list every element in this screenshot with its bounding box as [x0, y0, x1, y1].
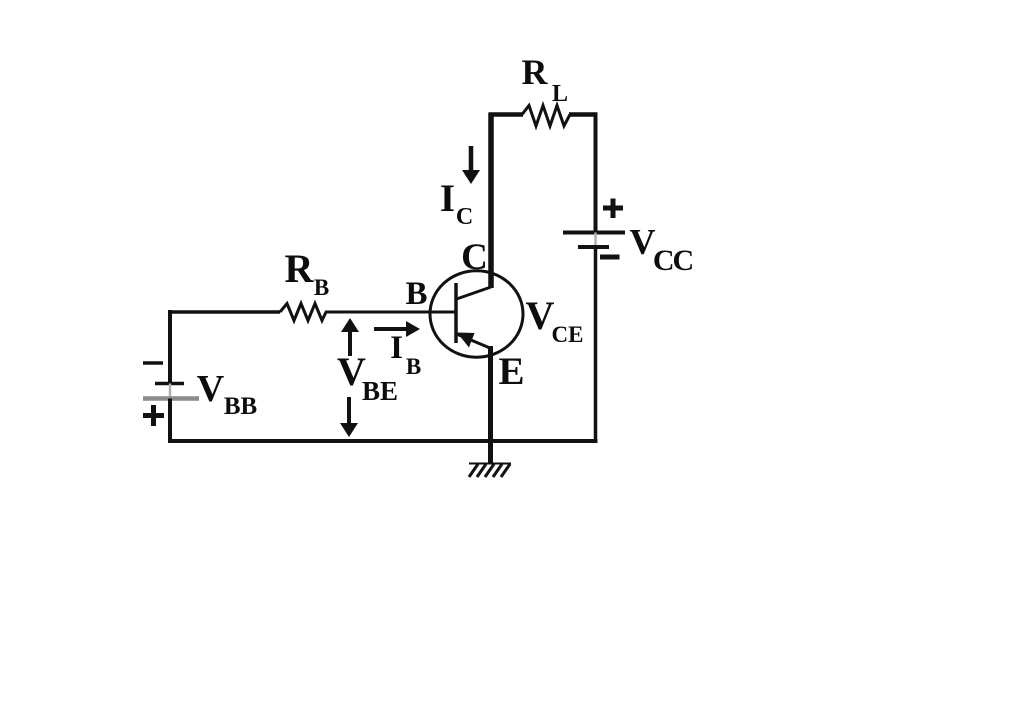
battery VBB inter-plate stub	[169, 384, 172, 399]
arrow IB	[374, 321, 420, 337]
label VBB	[197, 368, 257, 420]
svg-text:B: B	[314, 275, 329, 300]
label RB	[285, 246, 330, 300]
transistor collector diagonal	[457, 287, 492, 299]
battery VBB plus sign	[143, 405, 164, 426]
label IC	[440, 177, 473, 230]
svg-text:C: C	[461, 237, 488, 278]
svg-text:R: R	[285, 246, 315, 291]
label VCC	[630, 222, 693, 278]
wire base left segment	[168, 310, 280, 314]
label VCE	[526, 293, 584, 347]
svg-text:I: I	[390, 330, 403, 366]
battery VBB short plate	[155, 382, 184, 386]
resistor RL	[522, 106, 570, 127]
wire collector vertical	[488, 113, 494, 289]
transistor base bar	[454, 283, 458, 343]
svg-text:L: L	[552, 81, 568, 107]
battery VCC short plate	[578, 245, 609, 249]
wire top left segment to RL	[489, 112, 523, 117]
transistor emitter arrowhead	[457, 333, 475, 348]
arrow IC	[462, 146, 480, 184]
wire emitter vertical	[488, 346, 493, 464]
wire right vertical lower	[594, 247, 598, 443]
battery VCC plus sign	[603, 199, 623, 219]
label VBE	[337, 349, 398, 406]
svg-text:B: B	[406, 354, 421, 379]
wire bottom horizontal	[168, 439, 598, 443]
svg-text:V: V	[197, 368, 225, 410]
svg-text:B: B	[405, 276, 427, 312]
svg-text:R: R	[522, 52, 549, 92]
arrow VBE down	[340, 397, 358, 437]
wire left vertical lower	[168, 399, 172, 444]
wire right vertical upper	[594, 113, 598, 233]
transistor emitter diagonal	[457, 334, 491, 348]
svg-text:E: E	[498, 350, 524, 393]
wire left vertical upper	[168, 310, 172, 385]
svg-text:I: I	[440, 177, 455, 220]
svg-text:C: C	[456, 204, 473, 230]
svg-text:V: V	[526, 293, 555, 338]
resistor RB	[280, 304, 326, 321]
battery VCC long plate	[563, 231, 625, 235]
label IB	[390, 330, 421, 379]
label B	[405, 276, 427, 312]
ground top line	[469, 463, 511, 465]
battery VBB long plate	[143, 396, 199, 401]
battery VCC inter-plate stub	[594, 233, 597, 248]
svg-text:BB: BB	[224, 393, 257, 420]
svg-text:V: V	[630, 222, 656, 262]
arrow VBE up	[341, 318, 359, 356]
battery VBB minus sign	[143, 361, 163, 365]
svg-text:CC: CC	[653, 244, 693, 277]
wire top right segment from RL	[569, 112, 598, 117]
wire base right segment	[325, 311, 456, 314]
ground hatch strokes	[469, 464, 510, 477]
label E	[498, 350, 524, 393]
svg-text:CE: CE	[552, 322, 584, 347]
svg-text:BE: BE	[362, 376, 398, 406]
label C	[461, 237, 488, 278]
transistor Q1 circle	[430, 271, 523, 357]
battery VCC minus sign	[600, 255, 620, 260]
label RL	[522, 52, 569, 107]
